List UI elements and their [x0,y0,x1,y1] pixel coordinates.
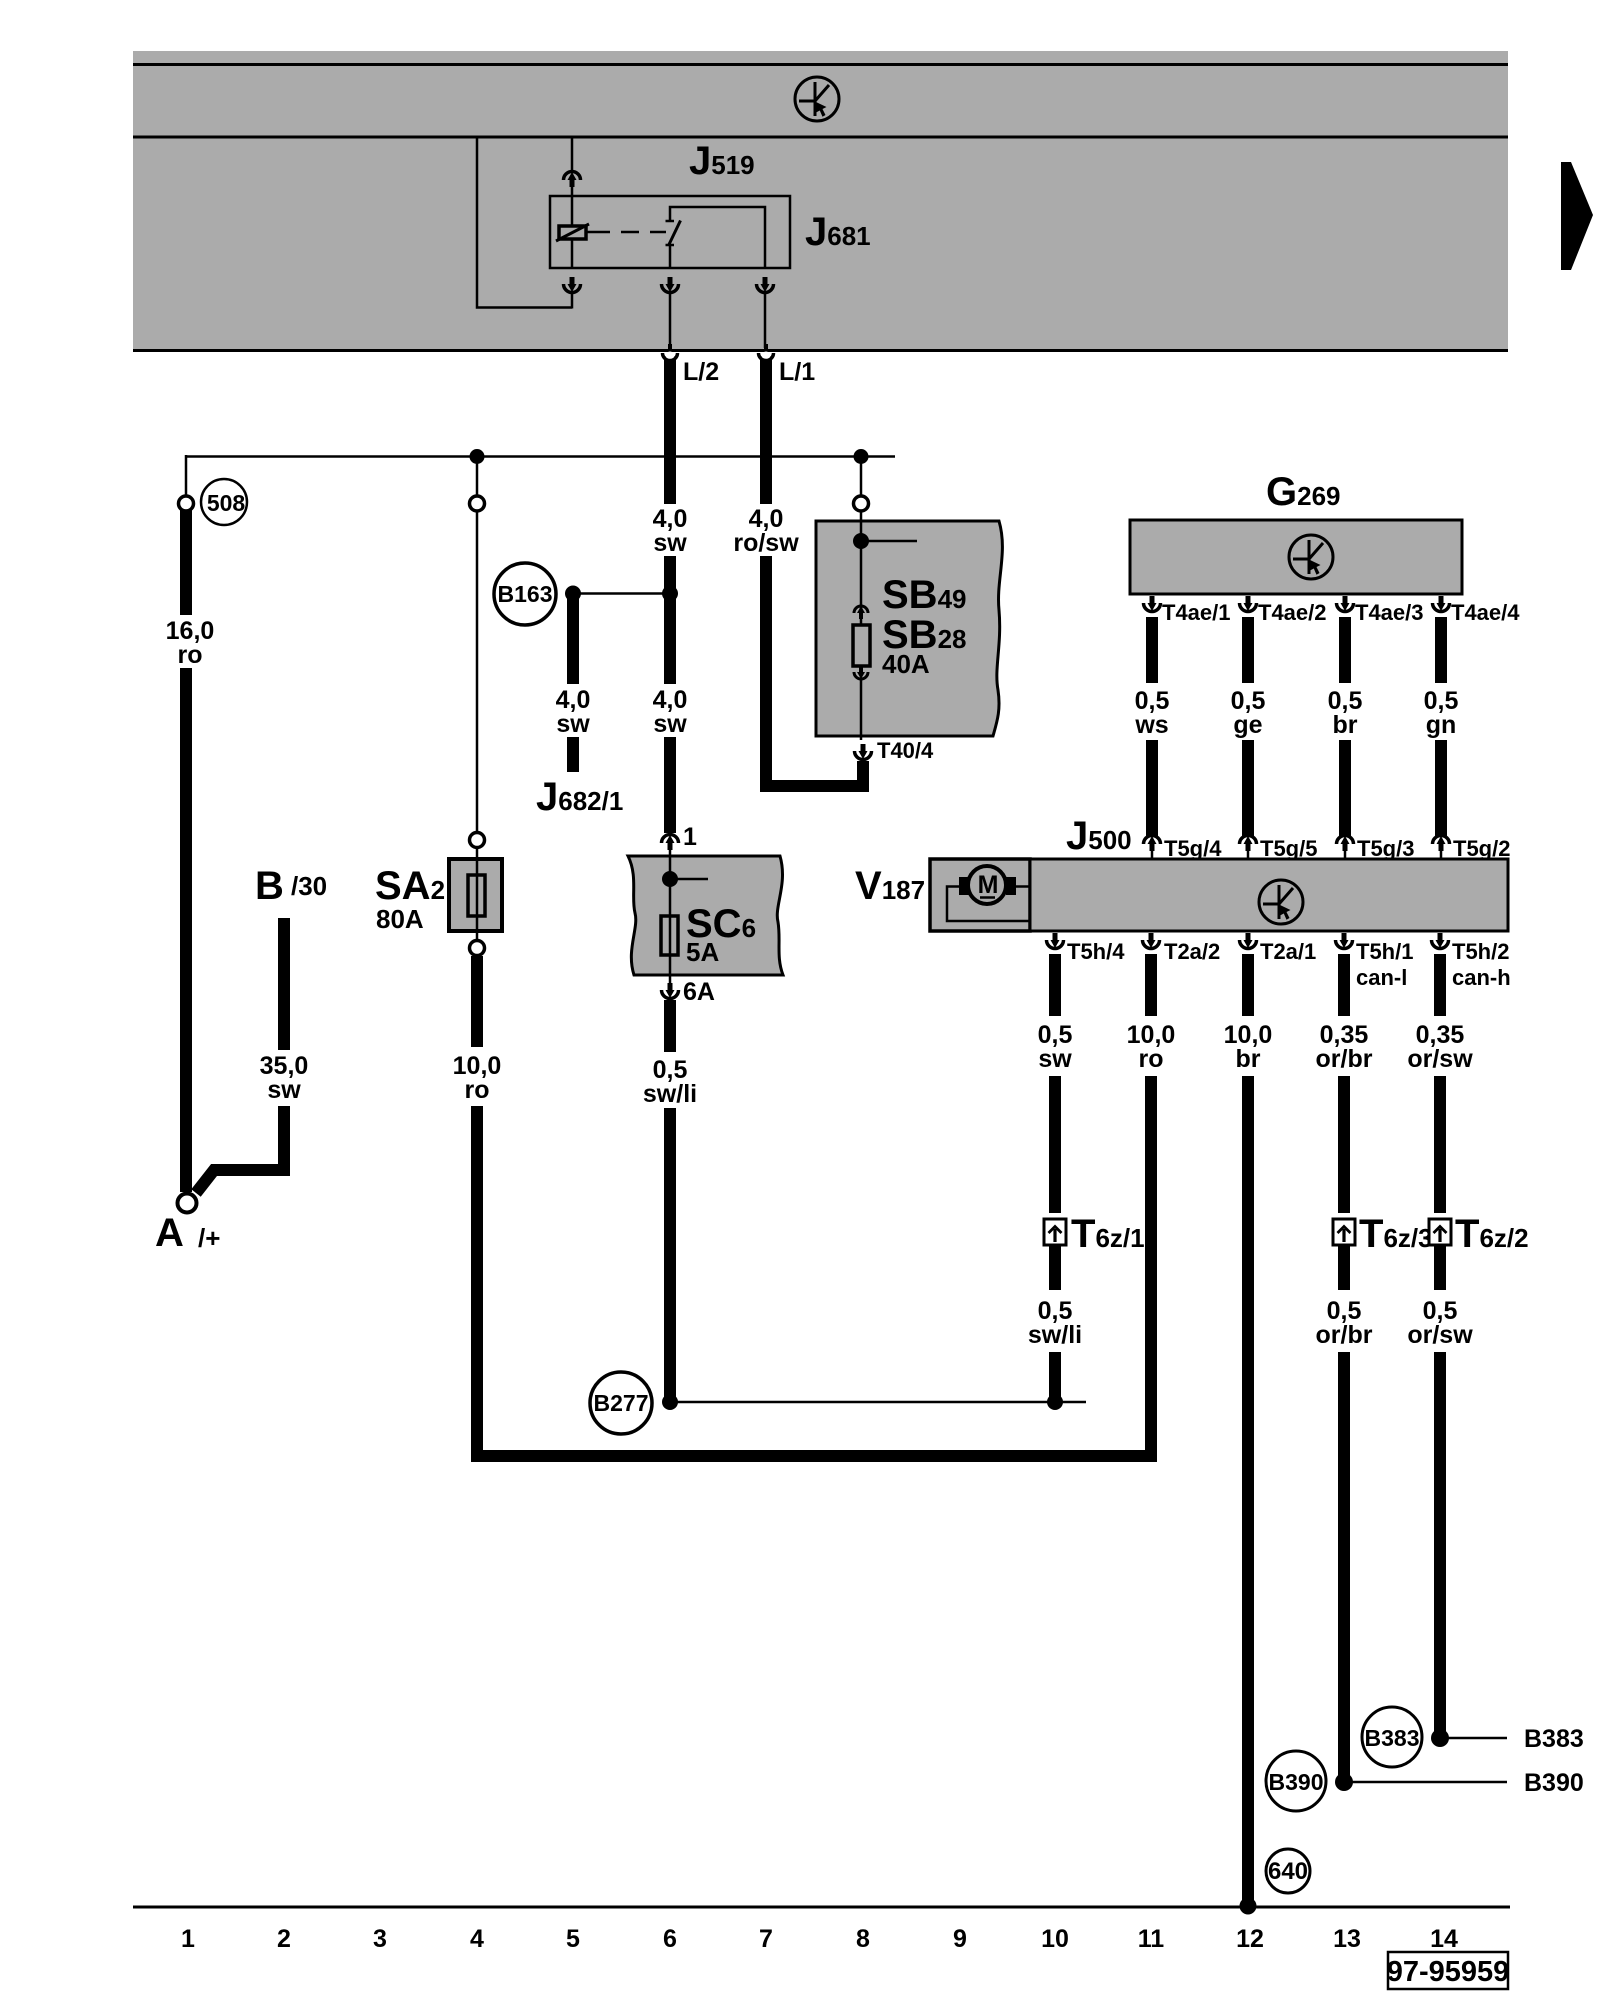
wire 0,5 br upper [1339,617,1351,683]
pin 6A below SC6 [662,975,679,999]
svg-text:or/sw: or/sw [1407,1045,1473,1073]
svg-text:5A: 5A [686,937,719,967]
control unit symbol in G269 [1289,535,1333,579]
svg-text:ws: ws [1134,711,1168,739]
wire 16,0 ro upper [180,510,192,615]
pin T5h/2 [1432,933,1449,949]
link line B163 junction [573,592,670,595]
svg-text:B383: B383 [1365,1725,1420,1751]
svg-text:T4ae/3: T4ae/3 [1355,600,1424,625]
svg-text:can-l: can-l [1356,965,1407,990]
junction on rail at SB column [854,449,869,464]
svg-text:B390: B390 [1524,1769,1584,1797]
svg-text:or/br: or/br [1316,1045,1373,1073]
junction B277 [662,1394,678,1410]
pin: relay switch terminal L/2 side [662,277,679,348]
svg-text:ro: ro [465,1076,490,1104]
pin 1 on SC6 feed [662,835,679,851]
wire 10,0 br upper [1242,954,1254,1016]
fuse panel SC6 [628,856,783,975]
svg-text:2: 2 [277,1925,291,1953]
svg-text:1: 1 [181,1925,195,1953]
fuse SC6 element [661,916,678,955]
pin T5g/5 [1240,836,1257,852]
svg-text:can-h: can-h [1452,965,1511,990]
label 640 (circled) [1266,1849,1310,1893]
pin T4ae/1 [1144,596,1161,612]
svg-text:ge: ge [1233,711,1262,739]
wire 0,35 or/br mid [1338,1076,1350,1213]
wire 0,5 swli lower [664,1108,676,1397]
wire below T6z/1 [1049,1246,1061,1290]
dashed actuation line [586,231,666,234]
junction ground 640 [1240,1898,1257,1915]
svg-text:br: br [1236,1045,1261,1073]
fuse SB49/SB28 element [853,625,870,666]
svg-text:7: 7 [759,1925,773,1953]
svg-text:B: B [255,864,284,908]
svg-text:br: br [1333,711,1358,739]
wire 35,0 sw upper [278,918,290,1050]
svg-text:40A: 40A [882,649,930,679]
wire: drop to terminal 508 [185,455,188,496]
pin T5g/4 [1144,836,1161,852]
pin T5g/2 [1433,836,1450,852]
wire 16,0 ro lower [180,668,192,1192]
svg-text:sw: sw [267,1076,301,1104]
pin T4ae/4 [1433,596,1450,612]
wire 0,35 or/sw mid [1434,1076,1446,1213]
svg-text:L/1: L/1 [779,358,815,386]
svg-text:T6z/3: T6z/3 [1359,1212,1433,1256]
wire: drop from rail to SB [860,455,863,496]
svg-text:14: 14 [1430,1925,1458,1953]
connector T6z/1 [1044,1219,1066,1245]
svg-text:gn: gn [1426,711,1457,739]
motor symbol [947,866,1030,921]
wire 0,5 sw mid [1049,1076,1061,1213]
svg-text:L/2: L/2 [683,358,719,386]
wire below T6z/2 [1434,1246,1446,1290]
wire stub J682/1 [567,737,579,772]
wire 0,5 gn upper [1435,617,1447,683]
pin above fuse SB [854,606,868,619]
wire 0,35 or/sw upper [1434,954,1446,1016]
svg-text:sw/li: sw/li [1028,1321,1082,1349]
link line B383 [1440,1737,1507,1740]
wire 0,5 ws upper [1146,617,1158,683]
wire 0,5 ge lower [1242,740,1254,836]
wire 4,0 sw L/2 lower [664,556,676,684]
fuse SA2 box [449,859,502,931]
svg-text:T5g/2: T5g/2 [1453,836,1510,861]
svg-text:T40/4: T40/4 [877,738,934,763]
wire 35,0 sw lower to A [196,1106,284,1193]
svg-text:B383: B383 [1524,1725,1584,1753]
drawing number box 97-95959 [1387,1952,1510,1989]
terminal A /+ circle [178,1194,197,1213]
wire thin to SA2 [476,512,479,833]
svg-text:or/br: or/br [1316,1321,1373,1349]
label 508 (circled) [201,479,247,525]
junction inside SB [853,533,869,549]
svg-text:T6z/2: T6z/2 [1455,1212,1529,1256]
relay J681 box [550,196,790,268]
svg-text:sw/li: sw/li [643,1080,697,1108]
connector circle below SA2 [476,931,479,941]
wire: coil lead into box [571,185,574,226]
control unit J500 box [1030,859,1508,931]
svg-text:B390: B390 [1269,1769,1324,1795]
socket L/1 at band edge [759,344,774,361]
svg-text:sw: sw [556,710,590,738]
svg-text:T5g/3: T5g/3 [1357,836,1414,861]
wire to B277 junction [1049,1352,1061,1397]
wire 4,0 sw to J682/1 [567,597,579,684]
wire to SB box bottom [860,680,863,740]
connector circle above SB [854,496,869,511]
pin below fuse SB [854,666,868,679]
svg-text:/30: /30 [291,871,327,901]
pin T5h/1 [1336,933,1353,949]
link line B390 [1344,1781,1507,1784]
pin T2a/2 [1143,933,1160,949]
svg-text:J682/1: J682/1 [536,775,623,819]
fuse panel SB49/SB28 [816,521,1002,736]
svg-text:13: 13 [1333,1925,1361,1953]
wire inside SC6 [669,856,672,975]
wire 10,0 ro to J500 T2a/2 [477,1076,1151,1456]
svg-text:or/sw: or/sw [1407,1321,1473,1349]
label B390 (circled) [1266,1751,1326,1811]
svg-text:T4ae/1: T4ae/1 [1162,600,1231,625]
svg-text:6A: 6A [683,978,715,1006]
svg-text:SA2: SA2 [375,864,445,908]
label B277 (circled) [590,1372,652,1434]
svg-text:11: 11 [1138,1925,1165,1953]
junction on rail at SA2 column [470,449,485,464]
svg-text:sw: sw [1038,1045,1072,1073]
svg-text:A: A [155,1211,184,1255]
svg-text:6: 6 [663,1925,677,1953]
svg-text:97-95959: 97-95959 [1387,1956,1510,1988]
svg-text:508: 508 [207,490,246,516]
wire 0,5 br lower [1339,740,1351,836]
continuation arrow (page edge) [1561,162,1593,270]
wire 0,5 sw upper [1049,954,1061,1016]
svg-text:B277: B277 [594,1390,649,1416]
svg-text:sw: sw [653,710,687,738]
connector circle above SA2 box [470,833,485,848]
svg-text:T4ae/4: T4ae/4 [1451,600,1520,625]
junction B390 [1335,1773,1353,1791]
svg-text:V187: V187 [855,864,925,908]
svg-text:T5g/4: T5g/4 [1164,836,1222,861]
label B163 (circled) [494,563,556,625]
relay coil [556,224,589,268]
relay switch contact [666,207,766,268]
wire 0,5 ws lower [1146,740,1158,836]
wire 4,0 sw to SC6 [664,737,676,833]
svg-text:8: 8 [856,1925,870,1953]
wire 10,0 ro riser label [1145,954,1157,1016]
control unit symbol in top band [795,77,839,121]
label B383 (circled) [1362,1707,1422,1767]
svg-text:J500: J500 [1066,814,1132,858]
pin: relay switch terminal L/1 side [757,277,774,348]
svg-text:1: 1 [683,823,697,851]
junction B163 [565,586,581,602]
wire 10,0 ro upper [471,956,483,1047]
wire 4,0 ro/sw to T40/4 [766,556,863,786]
pin T5g/3 [1337,836,1354,852]
control unit symbol in J500 [1259,880,1303,924]
svg-text:/+: /+ [198,1223,220,1253]
wire 4,0 sw L/2 upper [664,356,676,504]
svg-text:T5h/4: T5h/4 [1067,939,1125,964]
motor V187 box [930,859,1030,931]
svg-text:T2a/1: T2a/1 [1260,939,1316,964]
wire 0,5 swli upper [664,1000,676,1052]
node: electronics box / dash panel insert (gray band) [133,51,1508,352]
pin T40/4 [855,744,872,760]
svg-text:10: 10 [1041,1925,1069,1953]
wire 10,0 br to ground [1242,1076,1254,1901]
junction on T5h/4 wire [1047,1394,1063,1410]
svg-text:G269: G269 [1266,470,1341,514]
svg-text:T5h/1: T5h/1 [1356,939,1413,964]
junction inside SC6 [662,871,678,887]
svg-text:T4ae/2: T4ae/2 [1258,600,1327,625]
wire 0,35 or/br upper [1338,954,1350,1016]
svg-text:T5g/5: T5g/5 [1260,836,1317,861]
svg-text:5: 5 [566,1925,580,1953]
connector circle above SA2 chain [470,496,485,511]
track numbers 1-14 [181,1925,1458,1953]
svg-text:9: 9 [953,1925,967,1953]
wire 0,5 ge upper [1242,617,1254,683]
svg-text:sw: sw [653,529,687,557]
junction on L/2 wire [662,586,678,602]
wire: B277 link line [670,1401,1086,1404]
wire below T6z/3 [1338,1246,1350,1290]
wire: drop from rail to SA2 [476,455,479,496]
svg-text:B163: B163 [498,581,553,607]
wire: coil feed loop inside J519 [477,137,572,308]
connector T6z/2 [1429,1219,1451,1245]
svg-text:ro: ro [178,641,203,669]
svg-text:T6z/1: T6z/1 [1071,1212,1145,1256]
pin T2a/1 [1240,933,1257,949]
connector T6z/3 [1333,1219,1355,1245]
svg-text:80A: 80A [376,904,424,934]
pin T4ae/3 [1337,596,1354,612]
svg-text:T2a/2: T2a/2 [1164,939,1220,964]
wire to B390 [1338,1352,1350,1776]
sender G269 box [1130,520,1462,594]
svg-text:M: M [978,871,999,899]
svg-text:ro/sw: ro/sw [733,529,799,557]
pin: relay coil top terminal [564,172,581,188]
svg-text:640: 640 [1268,1858,1308,1885]
wire 0,5 gn lower [1435,740,1447,836]
bottom track line [133,1906,1510,1909]
svg-text:T5h/2: T5h/2 [1452,939,1509,964]
svg-text:4: 4 [470,1925,484,1953]
wire into SB box [860,512,863,625]
wire 4,0 ro/sw L/1 upper [760,356,772,504]
pin T4ae/2 [1240,596,1257,612]
junction B383 [1431,1729,1449,1747]
svg-text:12: 12 [1236,1925,1264,1953]
wire: horizontal rail y455 [186,455,895,458]
pin: relay terminal below box (coil return) [564,277,581,309]
pin T5h/4 [1047,933,1064,949]
connector 508 (open circle) [179,496,194,511]
wire to B383 [1434,1352,1446,1732]
svg-text:ro: ro [1139,1045,1164,1073]
svg-text:3: 3 [373,1925,387,1953]
socket L/2 at band edge [663,344,678,361]
wire: relay coil top lead from band rail [571,137,574,172]
